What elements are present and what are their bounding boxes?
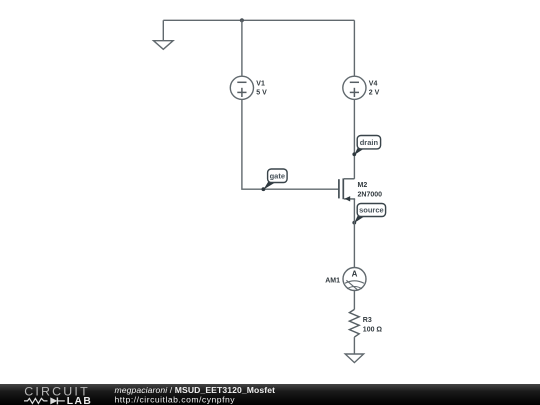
svg-text:5 V: 5 V — [256, 89, 267, 96]
footer bar — [0, 384, 540, 405]
wire R3 to ground — [353, 337, 355, 354]
svg-text:2N7000: 2N7000 — [358, 191, 383, 198]
svg-text:LAB: LAB — [67, 396, 92, 405]
svg-text:AM1: AM1 — [325, 277, 340, 284]
node label "source" — [352, 204, 385, 225]
svg-text:V1: V1 — [256, 80, 265, 87]
ammeter AM1 — [325, 268, 366, 291]
svg-text:http://circuitlab.com/cynpfny: http://circuitlab.com/cynpfny — [115, 395, 236, 405]
voltage source V4 — [343, 76, 380, 99]
wire source to ammeter — [353, 199, 355, 268]
svg-text:100 Ω: 100 Ω — [363, 326, 383, 333]
wire ammeter to R3 — [353, 291, 355, 310]
CircuitLab logo: resistor zigzag — [24, 398, 48, 403]
node label "drain" — [352, 136, 380, 157]
svg-text:drain: drain — [360, 138, 379, 147]
svg-text:V4: V4 — [369, 80, 378, 87]
voltage source V1 — [230, 76, 267, 99]
svg-text:2 V: 2 V — [369, 89, 380, 96]
svg-text:M2: M2 — [358, 182, 368, 189]
ground (bottom) — [345, 354, 363, 363]
svg-text:R3: R3 — [363, 317, 372, 324]
wire top horizontal from ground to V4 branch — [163, 19, 354, 21]
transistor M2 (NMOS 2N7000) — [339, 178, 382, 201]
CircuitLab logo: diode symbol — [50, 397, 57, 404]
ground (top left) — [154, 20, 174, 49]
node label "gate" — [262, 169, 288, 191]
svg-text:gate: gate — [270, 171, 285, 180]
wire V1 top — [241, 20, 243, 76]
resistor R3 — [349, 309, 382, 337]
svg-text:A: A — [352, 269, 358, 278]
wire V4 bottom to MOSFET drain — [353, 99, 355, 178]
node junction dot (top) — [240, 18, 244, 22]
wire V1 bottom to gate corner — [242, 99, 339, 189]
svg-text:source: source — [359, 206, 384, 215]
wire V4 top — [353, 20, 355, 76]
